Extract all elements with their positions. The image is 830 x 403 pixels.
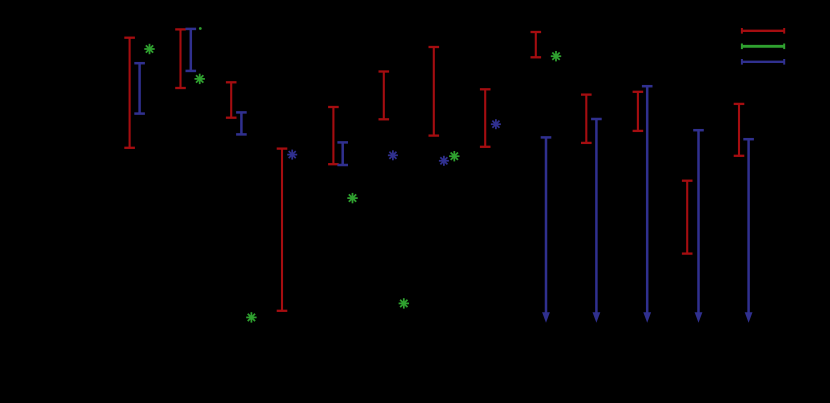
blue upper-limit arrow epoch11 bbox=[642, 86, 653, 323]
green asterisk epoch9 bbox=[551, 51, 561, 61]
red errorbar epoch13 bbox=[734, 104, 745, 156]
green asterisk epoch6 bbox=[399, 298, 409, 308]
legend red line bbox=[742, 28, 784, 34]
red errorbar epoch7 bbox=[429, 47, 440, 136]
green asterisk epoch3 bbox=[246, 312, 256, 322]
green asterisk epoch2 bbox=[195, 74, 205, 84]
legend blue line bbox=[742, 59, 784, 65]
blue upper-limit arrow epoch9 bbox=[541, 137, 552, 322]
legend green line bbox=[742, 44, 784, 50]
blue asterisk epoch6 bbox=[388, 150, 398, 160]
red errorbar epoch3 bbox=[226, 82, 237, 117]
blue asterisk epoch8 bbox=[491, 119, 501, 129]
red errorbar epoch6 bbox=[379, 72, 390, 120]
blue errorbar epoch5 bbox=[337, 142, 348, 165]
red errorbar epoch9 bbox=[531, 32, 542, 57]
green asterisk epoch7 bbox=[449, 151, 459, 161]
blue upper-limit arrow epoch13 bbox=[743, 139, 754, 323]
red errorbar epoch11 bbox=[633, 92, 644, 131]
blue upper-limit arrow epoch10 bbox=[591, 119, 602, 323]
red errorbar epoch10 bbox=[581, 95, 592, 143]
red errorbar epoch2 bbox=[175, 29, 186, 88]
small green dot epoch2 bbox=[199, 27, 202, 30]
green asterisk epoch5 bbox=[347, 193, 357, 203]
blue errorbar epoch2 bbox=[186, 29, 197, 71]
red errorbar epoch8 bbox=[480, 89, 491, 147]
blue upper-limit arrow epoch12 bbox=[693, 130, 704, 323]
blue asterisk epoch4 bbox=[287, 150, 297, 160]
blue asterisk epoch7 bbox=[439, 156, 449, 166]
blue errorbar epoch3 bbox=[236, 112, 247, 134]
red errorbar epoch4 bbox=[277, 149, 288, 311]
red errorbar epoch5 bbox=[328, 107, 339, 164]
red errorbar epoch12 bbox=[682, 181, 693, 254]
green asterisk epoch1 bbox=[144, 44, 154, 54]
blue errorbar epoch1 bbox=[134, 63, 145, 113]
red errorbar epoch1 bbox=[124, 38, 135, 148]
